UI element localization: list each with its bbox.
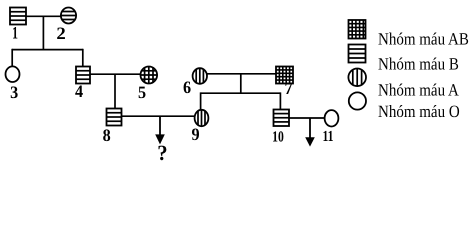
svg-text:9: 9 <box>191 126 199 145</box>
wire drop from couple 4-5 to individual 8 <box>114 74 116 109</box>
individual 5 female blood AB <box>140 66 158 84</box>
wire marriage 8-9 <box>121 115 195 117</box>
svg-text:Nhóm máu O: Nhóm máu O <box>378 103 460 121</box>
individual 7 male blood AB <box>276 67 293 84</box>
individual 4 male blood B <box>76 67 90 84</box>
legend symbol blood AB <box>349 20 366 39</box>
wire marriage 4-5 <box>90 73 141 75</box>
individual 6 female blood A <box>193 67 207 85</box>
individual 10 male blood B <box>274 110 290 127</box>
wire sibship bar children of 6-7 <box>201 92 281 94</box>
svg-text:Nhóm máu A: Nhóm máu A <box>378 82 459 100</box>
svg-text:11: 11 <box>322 127 333 145</box>
individual 2 female blood B <box>60 8 77 24</box>
legend symbol blood O <box>349 92 366 109</box>
individual 1 male blood B <box>10 8 26 25</box>
individual 3 female blood O <box>6 66 20 82</box>
wire drop to individual 9 <box>200 92 202 110</box>
arrow proband child of 8-9 <box>155 116 165 144</box>
svg-text:6: 6 <box>183 79 192 98</box>
wire drop to individual 4 <box>82 49 84 68</box>
wire marriage 6-7 <box>207 73 277 75</box>
wire marriage 1-2 <box>26 15 61 17</box>
individual 11 female blood O <box>325 110 339 126</box>
arrow child of 10-11 <box>305 118 315 147</box>
svg-text:5: 5 <box>138 84 146 103</box>
svg-text:7: 7 <box>284 80 293 99</box>
svg-text:?: ? <box>157 143 167 162</box>
wire sibship bar generation II <box>12 49 83 51</box>
svg-text:10: 10 <box>272 127 284 145</box>
svg-text:3: 3 <box>10 84 18 103</box>
svg-text:Nhóm máu B: Nhóm máu B <box>378 56 459 74</box>
individual 8 male blood B <box>107 109 122 126</box>
wire drop to individual 10 <box>279 92 281 110</box>
individual 9 female blood A <box>195 109 209 127</box>
wire drop to individual 3 <box>11 49 13 67</box>
svg-text:1: 1 <box>12 25 18 44</box>
wire drop from couple 1-2 <box>42 16 44 50</box>
wire marriage 10-11 <box>289 117 325 119</box>
svg-text:8: 8 <box>103 127 111 146</box>
svg-text:Nhóm máu AB: Nhóm máu AB <box>378 31 469 49</box>
legend symbol blood A <box>348 68 366 87</box>
svg-text:2: 2 <box>56 25 65 44</box>
svg-text:4: 4 <box>75 83 84 102</box>
wire drop from couple 6-7 <box>240 74 242 94</box>
legend symbol blood B <box>349 45 366 63</box>
